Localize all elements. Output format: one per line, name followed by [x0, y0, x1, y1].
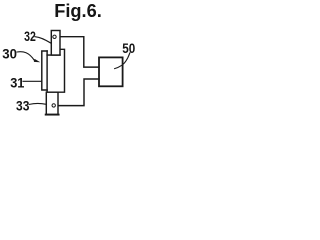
leader line to 33 — [29, 102, 46, 105]
svg-text:33: 33 — [16, 98, 30, 114]
svg-text:50: 50 — [122, 40, 135, 56]
terminal 33 bottom edge — [46, 114, 59, 116]
terminal 33 rectangle — [46, 92, 58, 114]
screw circle of terminal 33 — [52, 104, 55, 107]
leader line to 31 — [23, 80, 42, 82]
svg-text:30: 30 — [2, 46, 17, 62]
screw circle of terminal 32 — [53, 35, 56, 38]
leader line to 32 — [35, 37, 51, 44]
terminal 32 rectangle — [51, 31, 60, 56]
box 50 — [99, 57, 123, 86]
leader line to 50 — [115, 53, 130, 69]
body top edge — [47, 54, 60, 56]
arrowhead of leader 30 — [34, 59, 41, 62]
svg-text:31: 31 — [10, 74, 24, 90]
wire: top connection from terminal 32 to box 50 — [60, 37, 99, 67]
svg-text:32: 32 — [24, 28, 36, 44]
svg-text:Fig.6.: Fig.6. — [54, 0, 102, 21]
leader curve to 30 — [17, 52, 34, 61]
bracket tab 30 — [42, 51, 47, 90]
wire: bottom connection from terminal 33 to box 50 — [58, 79, 99, 106]
body 31 main rectangle — [47, 49, 64, 92]
